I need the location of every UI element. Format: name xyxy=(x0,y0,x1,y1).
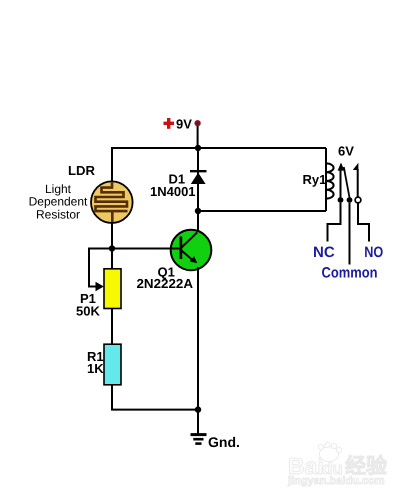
svg-text:Dependent: Dependent xyxy=(29,195,88,209)
node Common terminal xyxy=(347,197,353,203)
svg-text:1K: 1K xyxy=(87,361,104,376)
wire emitter down xyxy=(197,267,199,410)
svg-text:Gnd.: Gnd. xyxy=(208,434,240,450)
wire NO down xyxy=(358,203,369,242)
wire NC down xyxy=(328,203,341,242)
wiper arrow xyxy=(96,282,104,291)
svg-text:1N4001: 1N4001 xyxy=(150,184,196,199)
svg-text:LDR: LDR xyxy=(68,163,96,178)
svg-text:50K: 50K xyxy=(76,304,100,319)
wire collector stub xyxy=(197,211,199,233)
transistor Q1 xyxy=(170,230,211,271)
wire top rail xyxy=(111,147,326,149)
wire collector column (rail to lower junction) xyxy=(197,148,199,211)
wire P1 to R1 xyxy=(111,309,113,346)
node ground junction xyxy=(195,406,201,412)
svg-text:Ry1: Ry1 xyxy=(303,172,327,187)
relay armature common xyxy=(344,167,350,198)
potentiometer P1 xyxy=(104,269,121,309)
wire Common down xyxy=(349,203,351,265)
relay coil Ry1 xyxy=(326,148,334,211)
svg-text:9V: 9V xyxy=(176,117,192,132)
diode D1 xyxy=(190,171,207,184)
node lower junction xyxy=(195,208,201,214)
svg-text:NC: NC xyxy=(313,244,335,261)
svg-text:6V: 6V xyxy=(338,144,354,159)
node NO terminal xyxy=(355,197,361,203)
wire LDR bottom xyxy=(111,222,113,249)
label Light Dependent Resistor xyxy=(29,182,88,222)
ground xyxy=(191,435,207,444)
node top junction xyxy=(195,145,201,151)
wire LDR top xyxy=(111,148,113,182)
svg-text:NO: NO xyxy=(364,244,383,261)
node junction below LDR xyxy=(109,245,115,251)
LDR xyxy=(91,181,133,223)
wire ground stub xyxy=(197,410,199,434)
wire from +9V terminal to rail xyxy=(197,126,199,148)
relay contact NC arm xyxy=(338,163,345,199)
resistor R1 xyxy=(104,344,121,385)
wire R1 bottom to ground junction xyxy=(112,385,198,410)
watermark baidu jingyan xyxy=(287,442,388,487)
wire wiper of P1 xyxy=(89,249,112,287)
wire relay coil bottom return xyxy=(198,210,326,212)
svg-text:jingyan.baidu.com: jingyan.baidu.com xyxy=(287,475,385,487)
wire base xyxy=(112,248,183,250)
wire P1 top xyxy=(111,249,113,271)
svg-text:Resistor: Resistor xyxy=(36,208,80,222)
svg-text:Common: Common xyxy=(322,265,378,282)
node NC terminal xyxy=(338,197,344,203)
relay contact NO arm xyxy=(353,163,359,197)
+9V supply terminal xyxy=(164,117,201,132)
svg-text:2N2222A: 2N2222A xyxy=(137,276,194,291)
